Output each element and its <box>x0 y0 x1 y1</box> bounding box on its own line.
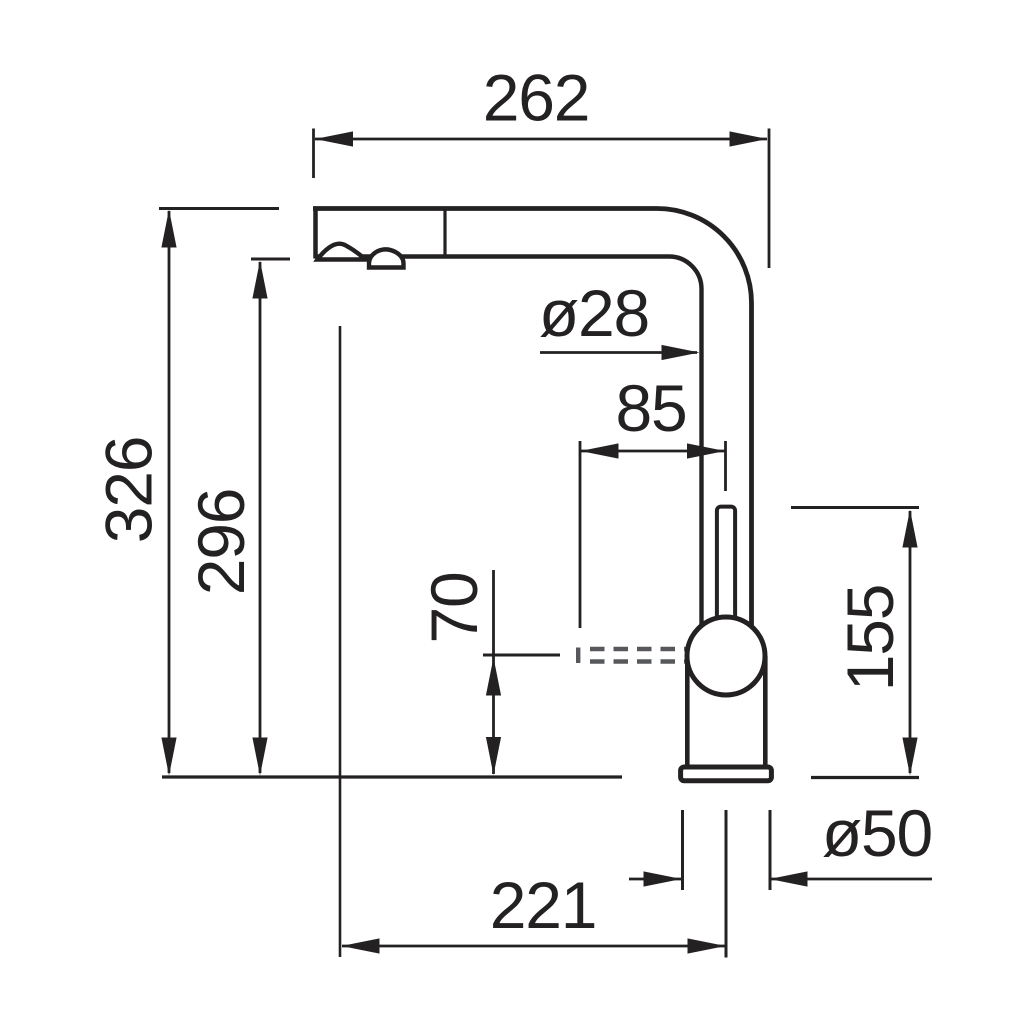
dim 155 arrow up <box>902 510 917 548</box>
hose dashed line upper <box>590 647 699 651</box>
wire spout inner profile (bottom line + inner bend + left tube line) <box>315 257 702 626</box>
base flange <box>681 767 772 781</box>
hose dashed cap <box>576 648 580 664</box>
dim 221 arrow left <box>342 938 380 953</box>
dim o28 leader line <box>540 351 697 354</box>
aerator bump right <box>369 249 404 267</box>
supply line left <box>681 810 684 890</box>
joint ball <box>687 617 765 695</box>
outlet centerline <box>339 326 342 957</box>
dim 85 arrow right <box>687 443 725 458</box>
dim 296 arrow up <box>252 261 267 299</box>
dim 326 arrow down <box>161 738 176 776</box>
svg-text:221: 221 <box>490 868 597 942</box>
body cylinder right line <box>763 656 768 768</box>
svg-text:326: 326 <box>92 437 166 544</box>
dim 221 line <box>342 945 725 948</box>
dim 262 extension right <box>768 129 771 269</box>
svg-text:296: 296 <box>184 489 258 596</box>
dim 85 extension left <box>579 441 582 628</box>
dim 85 line <box>581 450 725 453</box>
dim 85 arrow left <box>581 443 619 458</box>
dim 262 extension left <box>312 129 315 179</box>
aerator bump left <box>318 244 366 260</box>
dim o28 arrow <box>662 345 700 360</box>
dim 70 arrow up <box>486 658 501 696</box>
dim o50 line right <box>770 878 932 881</box>
dim 221 arrow right <box>688 938 726 953</box>
dim 296 extension top <box>251 258 290 261</box>
wire spout outer profile (top line + outer bend + right tube line) <box>313 209 752 626</box>
body cylinder left line <box>685 656 690 768</box>
countertop line left segment <box>162 775 622 778</box>
dim 262 line <box>315 138 767 141</box>
svg-text:ø28: ø28 <box>539 276 649 350</box>
dim 326 arrow up <box>161 210 176 248</box>
svg-text:ø50: ø50 <box>822 796 932 870</box>
dim 70 extension tick <box>483 654 560 657</box>
dim 262 arrow left <box>315 131 353 146</box>
hose dashed line lower <box>590 659 699 663</box>
svg-text:262: 262 <box>483 61 590 135</box>
dim o50 arrow right <box>770 871 808 886</box>
dim 155 line <box>909 511 912 773</box>
dim 70 arrow down <box>486 737 501 775</box>
dim 262 arrow right <box>730 131 768 146</box>
svg-text:70: 70 <box>417 572 491 643</box>
dim o50 arrow left <box>644 871 682 886</box>
handle lever <box>717 507 735 621</box>
faucet centerline below base <box>725 810 728 958</box>
dim 155 extension top <box>791 506 919 509</box>
spout tip divider line <box>443 209 446 257</box>
dim 326 extension top <box>159 207 279 210</box>
dim o50 line left <box>629 878 681 881</box>
supply line right <box>769 810 772 890</box>
dim 85 extension right <box>724 441 727 491</box>
svg-text:155: 155 <box>833 585 907 692</box>
svg-text:85: 85 <box>615 371 686 445</box>
dim 326 line <box>168 211 171 773</box>
dim 296 arrow down <box>252 738 267 776</box>
countertop line right segment <box>811 776 919 779</box>
dim 296 line <box>259 262 262 773</box>
dim 155 arrow down <box>902 738 917 776</box>
dim 70 line <box>492 570 495 774</box>
spout tip left edge <box>313 207 318 259</box>
